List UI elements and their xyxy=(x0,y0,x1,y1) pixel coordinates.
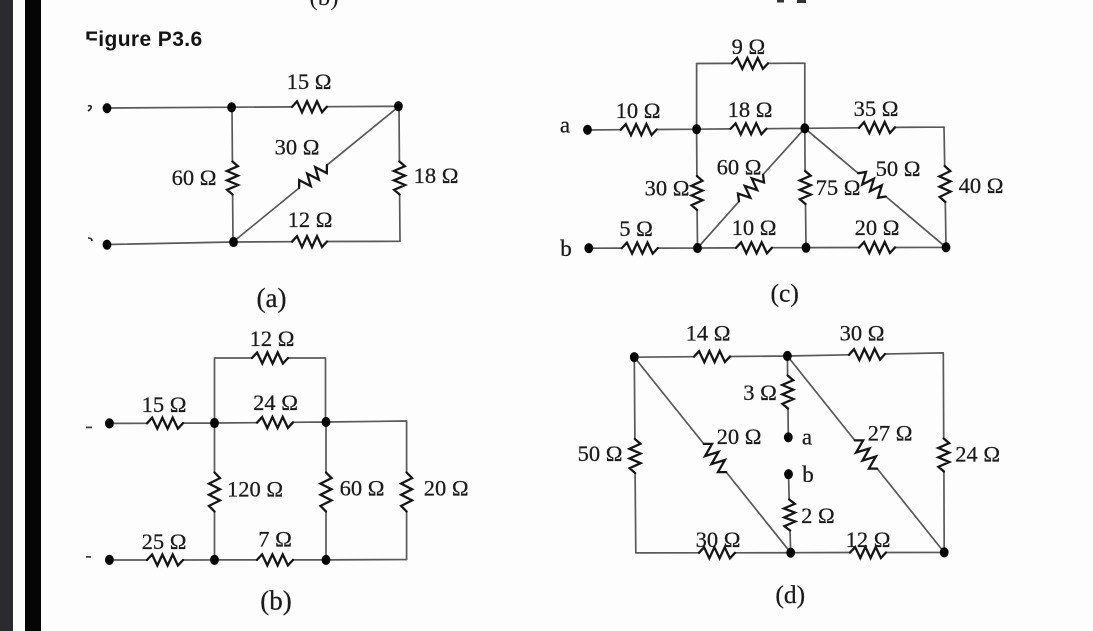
svg-text:7 Ω: 7 Ω xyxy=(258,527,292,552)
svg-text:b: b xyxy=(560,236,572,261)
svg-text:15 Ω: 15 Ω xyxy=(287,69,332,94)
svg-text:40 Ω: 40 Ω xyxy=(959,173,1004,198)
svg-text:a: a xyxy=(560,112,570,137)
svg-text:30 Ω: 30 Ω xyxy=(840,320,885,345)
svg-text:12 Ω: 12 Ω xyxy=(250,326,295,351)
svg-text:30 Ω: 30 Ω xyxy=(696,527,741,552)
svg-text:24 Ω: 24 Ω xyxy=(955,442,1000,467)
svg-text:60 Ω: 60 Ω xyxy=(172,165,217,190)
svg-text:Figure P3.6: Figure P3.6 xyxy=(85,28,203,51)
svg-text:12 Ω: 12 Ω xyxy=(846,527,891,552)
svg-text:(c): (c) xyxy=(771,278,799,307)
svg-text:12 Ω: 12 Ω xyxy=(288,207,333,232)
svg-text:10 Ω: 10 Ω xyxy=(732,215,777,240)
svg-text:5 Ω: 5 Ω xyxy=(619,216,653,241)
svg-text:120 Ω: 120 Ω xyxy=(227,477,283,502)
svg-text:50 Ω: 50 Ω xyxy=(578,441,623,466)
svg-text:20 Ω: 20 Ω xyxy=(717,424,762,449)
svg-text:2 Ω: 2 Ω xyxy=(801,503,835,528)
svg-text:18 Ω: 18 Ω xyxy=(414,163,459,188)
svg-text:30 Ω: 30 Ω xyxy=(645,176,690,201)
svg-text:(b): (b) xyxy=(309,0,338,11)
svg-text:b: b xyxy=(802,462,814,487)
svg-text:10 Ω: 10 Ω xyxy=(616,98,661,123)
svg-text:60 Ω: 60 Ω xyxy=(340,476,385,501)
svg-text:9 Ω: 9 Ω xyxy=(732,34,766,59)
svg-text:3 Ω: 3 Ω xyxy=(743,380,777,405)
svg-text:14 Ω: 14 Ω xyxy=(686,320,731,345)
svg-text:a: a xyxy=(802,425,812,450)
svg-text:(a): (a) xyxy=(257,283,287,313)
svg-text:75 Ω: 75 Ω xyxy=(816,175,861,200)
svg-text:27 Ω: 27 Ω xyxy=(868,420,913,445)
svg-text:18 Ω: 18 Ω xyxy=(728,97,773,122)
svg-text:(b): (b) xyxy=(260,586,291,616)
svg-text:60 Ω: 60 Ω xyxy=(717,154,762,179)
svg-text:20 Ω: 20 Ω xyxy=(424,476,469,501)
svg-text:24 Ω: 24 Ω xyxy=(253,390,298,415)
svg-text:(d): (d) xyxy=(775,580,805,609)
svg-text:30 Ω: 30 Ω xyxy=(275,135,320,160)
svg-text:50 Ω: 50 Ω xyxy=(876,156,921,181)
svg-text:35 Ω: 35 Ω xyxy=(854,96,899,121)
svg-text:20 Ω: 20 Ω xyxy=(855,215,900,240)
svg-text:25 Ω: 25 Ω xyxy=(142,529,187,554)
svg-text:15 Ω: 15 Ω xyxy=(142,392,187,417)
